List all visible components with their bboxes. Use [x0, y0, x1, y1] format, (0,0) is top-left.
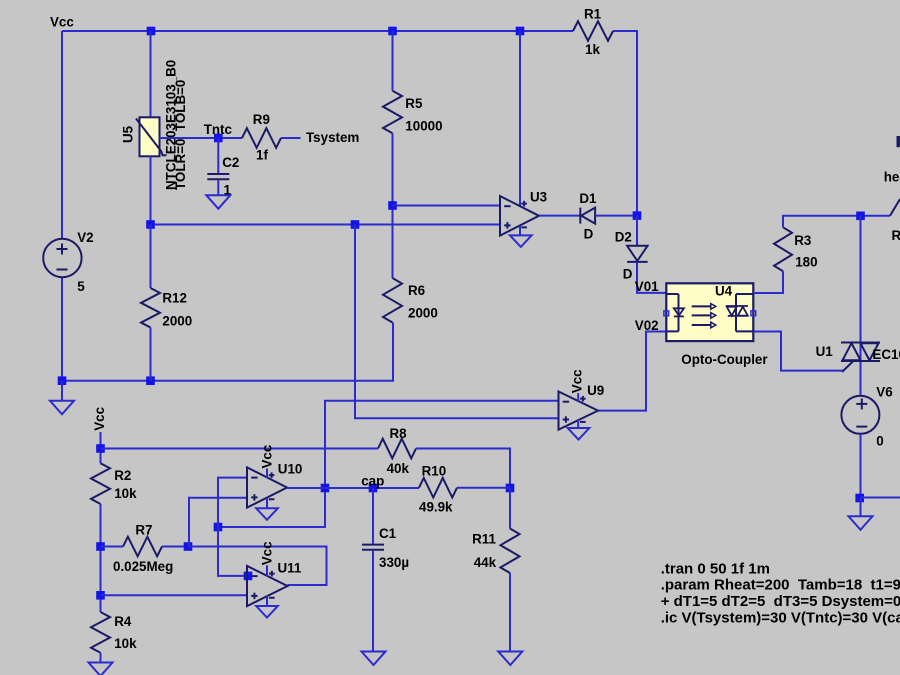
- junction cap wire / U9 branch: [321, 484, 330, 493]
- wire mid rail to U3 non-inverting input: [151, 224, 501, 226]
- svg-text:1k: 1k: [585, 42, 600, 57]
- svg-text:5: 5: [77, 279, 85, 294]
- wire heater node down through triac U1 to V6: [860, 216, 862, 396]
- wire R7 left lead: [101, 546, 124, 548]
- resistor R12: [150, 225, 152, 289]
- wire to U3 inverting input: [393, 205, 501, 207]
- junction D1/D2/R1 node: [633, 211, 642, 220]
- wire U3 negative supply to ground: [519, 226, 521, 236]
- resistor R1: [573, 21, 613, 41]
- ground below U10: [256, 508, 278, 520]
- wire ground node to right edge: [861, 497, 900, 499]
- svg-text:R9: R9: [253, 112, 270, 127]
- wire top rail down to U5: [150, 31, 152, 118]
- svg-text:40k: 40k: [387, 461, 410, 476]
- wire U10 inverting input loop to U11 inverting input: [218, 478, 248, 576]
- junction top rail / U5 branch: [147, 27, 156, 36]
- svg-text:Vcc: Vcc: [92, 406, 107, 430]
- svg-text:2000: 2000: [408, 305, 438, 320]
- junction mid rail / U5-R12: [146, 220, 155, 229]
- svg-text:R5: R5: [405, 96, 423, 111]
- junction top rail / U3 supply branch: [516, 27, 525, 36]
- ground below V6: [849, 516, 873, 530]
- svg-text:D: D: [623, 267, 633, 282]
- junction R8/R10/R11 node: [506, 484, 515, 493]
- svg-text:.ic V(Tsystem)=30 V(Tntc)=30 V: .ic V(Tsystem)=30 V(Tntc)=30 V(cap)=30: [661, 609, 900, 626]
- svg-text:R1: R1: [584, 7, 602, 22]
- opto-coupler U4 right port pin: [751, 311, 756, 316]
- opto-coupler U4 left port pin: [664, 311, 669, 316]
- ground below C1: [362, 652, 386, 666]
- resistor R5: [383, 91, 402, 134]
- svg-text:49.9k: 49.9k: [419, 500, 453, 515]
- wire bottom rail to R6 bottom: [62, 323, 393, 381]
- svg-text:0.025Meg: 0.025Meg: [113, 559, 173, 574]
- svg-text:TOLR=0 TOLB=0: TOLR=0 TOLB=0: [173, 80, 188, 190]
- resistor R9: [242, 128, 281, 148]
- op-amp U11: [247, 566, 288, 606]
- svg-text:R12: R12: [162, 291, 187, 306]
- wire opto right top pin to R3: [754, 271, 784, 293]
- wire V2 minus to bottom rail: [61, 278, 63, 381]
- wire U3 output to D1: [539, 215, 580, 217]
- resistor R2: [91, 463, 110, 504]
- svg-text:R4: R4: [114, 614, 132, 629]
- svg-text:1f: 1f: [256, 148, 268, 163]
- wire C1 to ground: [372, 551, 374, 652]
- wire U9 output up to opto pin V02: [598, 332, 666, 411]
- junction node Tntc: [214, 134, 223, 143]
- wire R12 bottom lead: [150, 328, 152, 381]
- svg-text:Tntc: Tntc: [204, 122, 233, 137]
- junction top rail / R5 branch: [388, 27, 397, 36]
- wire R3 top to heater node: [783, 216, 890, 228]
- junction R7 / U10 non-inverting / U11 output node: [184, 542, 193, 551]
- svg-text:cap: cap: [361, 474, 384, 489]
- wire U10 ground stub: [266, 498, 268, 509]
- wire node to R11: [509, 488, 511, 529]
- svg-text:10k: 10k: [114, 486, 137, 501]
- svg-text:U9: U9: [587, 383, 604, 398]
- svg-text:R8: R8: [390, 426, 408, 441]
- svg-text:Vcc: Vcc: [259, 444, 274, 468]
- wire V6 to ground node: [860, 434, 862, 498]
- svg-text:330µ: 330µ: [379, 555, 409, 570]
- op-amp U9: [559, 392, 599, 430]
- svg-text:Opto-Coupler: Opto-Coupler: [681, 352, 768, 367]
- svg-text:V2: V2: [77, 230, 93, 245]
- svg-text:0: 0: [876, 433, 883, 448]
- svg-text:Vcc: Vcc: [259, 541, 274, 565]
- wire Vcc node to R8: [101, 448, 379, 450]
- ground below R4: [89, 663, 113, 675]
- wire R2 bottom through R7/R4 nodes: [100, 504, 102, 612]
- clipped blue flag top-right corner: [897, 136, 900, 147]
- svg-text:U11: U11: [278, 561, 302, 576]
- wire top Vcc rail: [62, 30, 573, 32]
- resistor R11: [501, 529, 520, 574]
- wire R9 to Tsystem: [281, 137, 301, 139]
- thermistor U5 body: [140, 117, 160, 156]
- svg-text:+ dT1=5 dT2=5 dT3=5 Dsystem=0: + dT1=5 dT2=5 dT3=5 Dsystem=0.1: [661, 593, 900, 610]
- capacitor C1: [362, 544, 384, 546]
- junction R4 top / U11 input node: [96, 591, 105, 600]
- wire Vcc rail down to V2 plus: [61, 31, 63, 239]
- resistor R4: [91, 612, 110, 653]
- wire R8 right lead down to R10/R11 node: [416, 449, 510, 489]
- wire top rail to U3 positive supply: [519, 31, 521, 206]
- wire C2 to ground: [217, 180, 219, 195]
- ground below C2: [206, 195, 230, 209]
- svg-text:2000: 2000: [162, 313, 192, 328]
- wire R4 node to U11 non-inverting input: [101, 594, 248, 596]
- opto-coupler U4 triac output side: [726, 294, 753, 331]
- svg-text:EC103D1: EC103D1: [872, 347, 900, 362]
- wire D2 to opto pin V01: [637, 263, 666, 293]
- opto-coupler U4 body: [666, 283, 753, 341]
- svg-text:.param Rheat=200 Tamb=18 t1=: .param Rheat=200 Tamb=18 t1=900: [661, 577, 900, 594]
- junction heater node: [856, 212, 865, 221]
- wire U5 bottom to mid rail: [150, 156, 152, 225]
- op-amp U3: [500, 196, 539, 236]
- svg-text:C1: C1: [379, 526, 397, 541]
- ground below U11: [256, 606, 278, 618]
- junction bottom rail / R12 bottom: [146, 376, 155, 385]
- svg-text:C2: C2: [222, 155, 239, 170]
- diode D2: [627, 246, 648, 261]
- svg-text:U4: U4: [715, 284, 733, 299]
- svg-text:.tran 0 50 1f 1m: .tran 0 50 1f 1m: [661, 560, 770, 577]
- resistor R7: [123, 537, 162, 557]
- svg-text:D1: D1: [579, 191, 597, 206]
- wire U11 ground stub: [266, 596, 268, 606]
- wire R7 right lead: [162, 546, 188, 548]
- svg-text:Tsystem: Tsystem: [306, 130, 359, 145]
- voltage source V2: [43, 239, 81, 277]
- diode D1: [579, 208, 581, 224]
- svg-text:U10: U10: [278, 461, 303, 476]
- wire D1 anode to node: [596, 215, 638, 217]
- svg-text:10k: 10k: [114, 636, 137, 651]
- ground below R11: [498, 652, 522, 666]
- wire U9 ground stub: [577, 420, 579, 428]
- junction Vcc / R8 wire: [96, 444, 105, 453]
- svg-text:44k: 44k: [474, 555, 497, 570]
- wire Vcc stub to R2: [100, 432, 102, 463]
- wire U5 right pin to Tntc node: [160, 137, 243, 139]
- voltage source V6: [841, 396, 879, 434]
- wire U10 output to cap node and R10: [287, 487, 419, 489]
- junction bottom rail / ground: [58, 376, 67, 385]
- opto-coupler U4 coupling arrows: [692, 304, 716, 328]
- wire R11 to ground: [509, 573, 511, 652]
- svg-text:D: D: [584, 227, 594, 242]
- resistor R6: [383, 278, 402, 323]
- resistor R10: [419, 478, 457, 498]
- svg-text:V01: V01: [635, 279, 659, 294]
- ground below V2 rail: [50, 401, 74, 415]
- svg-text:180: 180: [795, 255, 817, 270]
- svg-text:Vcc: Vcc: [50, 15, 74, 30]
- junction node cap: [369, 484, 378, 493]
- junction R5-R6 node to U3 inverting input: [388, 201, 397, 210]
- wire Tntc down to C2: [217, 138, 219, 173]
- svg-text:R3: R3: [794, 233, 811, 248]
- capacitor C2: [207, 173, 229, 175]
- svg-text:V6: V6: [876, 384, 892, 399]
- wire top rail to R5: [392, 31, 394, 91]
- junction mid rail / U9 branch: [351, 220, 360, 229]
- wire U9 inverting input to cap node branch and U10 inverting loop: [218, 401, 559, 527]
- junction V6 ground node: [855, 494, 864, 503]
- opto-coupler U4 LED input side: [666, 294, 684, 331]
- wire U11 Vcc stub: [266, 565, 268, 576]
- wire R4 to ground: [100, 653, 102, 663]
- wire node to D2: [636, 216, 638, 246]
- wire R10 right lead: [457, 487, 510, 489]
- svg-text:U5: U5: [121, 125, 136, 143]
- svg-text:D2: D2: [615, 229, 632, 244]
- resistor R8: [378, 439, 416, 459]
- svg-text:R10: R10: [422, 463, 447, 478]
- wire U11 output feedback to R7 node: [188, 547, 327, 586]
- svg-text:R6: R6: [408, 283, 425, 298]
- ground below U3: [510, 235, 532, 247]
- resistor Rheat partial at right edge: [890, 199, 900, 216]
- wire cap node to C1: [372, 488, 374, 544]
- wire mid rail down to U9 non-inverting input: [355, 225, 559, 419]
- resistor R3: [774, 227, 792, 271]
- wire R1 output down to D1/D2 node: [613, 31, 637, 216]
- junction U10/U11 inverting node: [214, 523, 223, 532]
- junction R2-R7 node: [96, 542, 105, 551]
- svg-text:U3: U3: [530, 190, 547, 205]
- wire ground stub: [860, 498, 862, 516]
- thermistor U5 diagonal stroke: [136, 119, 167, 156]
- wire U10 Vcc stub: [266, 469, 268, 479]
- wire R5 bottom to R6 top: [392, 133, 394, 278]
- junction at U11 inverting input: [244, 572, 253, 581]
- svg-text:R2: R2: [114, 468, 131, 483]
- wire U10 non-inverting input to R7 node: [189, 498, 247, 547]
- svg-text:Rheat: Rheat: [892, 228, 900, 243]
- svg-text:Vcc: Vcc: [570, 369, 585, 393]
- triac U1: [841, 343, 880, 373]
- wire opto right bottom pin to U1 gate: [754, 332, 844, 371]
- wire U9 Vcc stub: [577, 393, 579, 401]
- svg-text:R11: R11: [472, 532, 496, 547]
- svg-text:heater: heater: [884, 170, 900, 185]
- svg-text:R7: R7: [135, 523, 152, 538]
- wire ground stub: [61, 381, 63, 401]
- ground below U9: [568, 428, 590, 440]
- op-amp U10: [247, 467, 287, 507]
- svg-text:10000: 10000: [405, 119, 442, 134]
- svg-text:U1: U1: [816, 344, 834, 359]
